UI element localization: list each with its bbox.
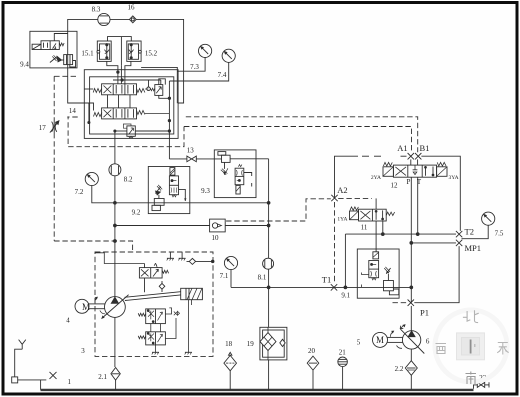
svg-text:8.1: 8.1 [258,273,267,281]
svg-text:7.1: 7.1 [220,272,229,280]
char E [497,343,508,355]
wire 15.1 bottom [107,61,118,69]
svg-text:P1: P1 [420,308,429,318]
main vertical supply line [114,138,116,163]
svg-text:B1: B1 [420,143,430,153]
relief arrow in 9.4 [50,55,62,62]
solenoid valve 12 [383,162,447,177]
pump suction down [114,317,116,367]
wire 9.3 out right [230,158,269,160]
svg-text:7.2: 7.2 [75,188,84,196]
svg-text:16: 16 [128,4,136,12]
svg-text:3: 3 [81,347,85,355]
throttle valve 17 [50,121,59,134]
wire reducing valve left [115,130,127,132]
compensator valve B [138,332,165,345]
wire 13 left [169,158,187,160]
relief valve 14 [150,79,169,99]
char S [466,372,477,385]
pump unit dashed enclosure [95,252,213,356]
svg-text:8.2: 8.2 [124,175,133,183]
port X P1 [408,300,414,306]
pump 3 main [102,295,129,319]
gauge 7.3 [177,44,211,71]
pilot dashed line to B1 [186,117,418,153]
wire main drop from block [114,131,116,138]
wire 15.2 bottom [125,61,131,69]
globe valve 13 [187,156,196,162]
body box 9.3 [218,152,230,163]
wire A2 drop through valve 11 [375,198,377,209]
wire valve11 port down [382,221,384,234]
reducing arrow 9.1 [384,267,390,274]
wire T2 line [345,233,456,235]
pilot dashed top [54,75,77,77]
svg-text:18: 18 [225,340,233,348]
flow meter 8.2 [109,164,121,176]
svg-text:MP1: MP1 [465,243,482,253]
servo piston [181,288,203,305]
svg-text:1: 1 [68,378,72,386]
svg-text:15.2: 15.2 [145,50,158,58]
hatch box 9.2 [170,168,175,176]
gauge 7.1 [224,256,237,287]
wire 13 right [196,158,221,160]
wire MP1 line [411,242,456,244]
svg-text:2YA: 2YA [371,175,381,181]
wire 9.4 drop [68,31,85,103]
svg-text:A1: A1 [397,143,407,153]
svg-text:2.2: 2.2 [395,365,404,373]
body box 9.2 [152,195,164,211]
svg-text:9.4: 9.4 [20,61,29,69]
port X MP1 [456,240,462,246]
svg-text:A2: A2 [337,185,347,195]
svg-text:7.3: 7.3 [190,63,199,71]
pilot dashed inner bracket [67,117,184,147]
cartridge valve 9.3 [235,165,244,195]
char N [463,310,479,322]
directional valve 14 lower [94,108,145,119]
svg-text:T1: T1 [322,275,331,285]
directional valve 14 upper [93,84,145,95]
filter unit 19 [260,327,287,360]
svg-text:9.2: 9.2 [132,209,141,217]
hatch box 9.1 [373,252,379,259]
drain valve 22 [474,382,490,388]
svg-text:19: 19 [247,340,255,348]
port X B1 [415,153,421,159]
reducing arrow 9.3 [221,162,228,175]
filter 18 [224,352,237,389]
pilot dashed bottom to pump box [54,241,132,252]
wire center pilot drop [120,37,122,66]
svg-text:14: 14 [69,107,77,115]
wire 10 right [225,225,268,227]
svg-text:7.4: 7.4 [218,71,227,79]
wire B1 to T2 [421,156,460,231]
wire A1 dashes [362,155,369,157]
shaft 4 [89,297,105,314]
compensator valve A [138,309,165,324]
pilot dashed 9.1 to P1 [393,302,407,304]
wire T1 line [231,286,411,288]
wire pump6 to P1 [410,306,412,331]
svg-text:M: M [376,335,384,345]
wire mid horizontal 9.2 [115,202,269,204]
svg-text:P: P [407,178,411,186]
svg-text:20: 20 [308,347,316,355]
svg-text:10: 10 [212,234,220,242]
reducing arrow 9.2 [155,185,162,195]
wire valve12 T port down [417,177,419,234]
wire port riser right [141,67,177,103]
filter 2.1 [111,368,120,390]
check valve top right pump box [187,258,215,264]
check valve 10 [210,219,226,232]
wire 7.4 drop to valve 13 [168,81,170,159]
svg-text:3YA: 3YA [449,175,459,181]
svg-text:8.3: 8.3 [92,6,101,14]
svg-text:21: 21 [339,349,347,357]
svg-text:9.3: 9.3 [201,187,210,195]
solenoid valve in 9.4 [32,34,68,50]
check diamond mid [159,281,165,292]
svg-text:13: 13 [187,147,195,155]
svg-text:T2: T2 [465,227,474,237]
port X T2 [456,231,462,237]
wire top bus [68,19,184,103]
tank symbols pump box [167,252,186,261]
wire A2 riser [335,156,359,198]
pilot valve 15.2 [127,41,142,61]
check circle 14 [147,87,151,91]
svg-text:T: T [417,178,422,186]
pilot relief valve pump box [95,253,169,292]
gauge 7.5 [462,212,495,239]
vertical return line [268,159,270,258]
wires compensators [151,300,192,355]
filter 20 [307,356,319,390]
node junctions main line [114,201,117,204]
wire reducing valve right [135,130,169,132]
block 14 outer [84,70,178,139]
svg-text:12: 12 [391,182,399,190]
reducing valve 14 bottom [123,124,135,138]
wire 15.x top U bus [108,37,132,41]
port X T1 [331,284,337,290]
pilot dashed A2 to valve 11 [338,197,372,199]
solenoid valve 11 [350,207,395,221]
pump 6 [400,324,424,353]
port X A1 [408,153,414,159]
swash linkage [125,292,181,301]
svg-text:1YA: 1YA [337,217,347,223]
svg-text:6: 6 [426,337,430,345]
pilot dashed left vertical [53,76,55,120]
wire valve12 A port [410,159,412,165]
motor 4 [75,299,89,313]
svg-text:11: 11 [361,223,368,231]
port X A2 [331,195,337,201]
drain bracket 9.2 [179,189,186,201]
valve box 9.4 [30,31,77,68]
drain Y [12,340,57,390]
filter 2.2 [405,349,417,390]
tank bus line [41,389,474,391]
wire 10 left [115,225,210,227]
breather 21 [338,357,348,390]
svg-text:M: M [82,302,90,312]
wire valve12 P port down [410,177,412,303]
pilot dashed A2 down to T1 [334,202,336,284]
svg-text:7.5: 7.5 [495,230,504,238]
flow meter 8.3 [98,13,110,25]
check valve 16 [129,16,136,23]
svg-text:17: 17 [39,124,47,132]
svg-text:15.1: 15.1 [81,50,94,58]
pilot dashed line to A1 [184,127,412,153]
pilot valve 15.1 [97,41,111,61]
gauge 7.2 [85,172,113,202]
wire MP1 to P1 loop [414,246,459,303]
motor 5 [373,331,403,349]
svg-text:2.1: 2.1 [98,373,107,381]
gauge 7.4 [169,49,235,81]
svg-text:5: 5 [357,338,361,346]
internal top bus [113,70,161,87]
piston box in 9.4 [62,55,76,67]
inter-valve wires [84,89,169,124]
cartridge valve 9.2 [169,176,178,197]
flow meter 8.1 [263,258,274,269]
svg-text:9.1: 9.1 [341,292,350,300]
char W [436,344,447,354]
cartridge valve 9.1 [361,261,378,288]
drain bracket 9.3 [244,173,252,177]
pilot dashed from valve 10 to A2 [226,199,331,221]
svg-text:4: 4 [66,316,70,324]
body box 9.1 [384,274,399,295]
